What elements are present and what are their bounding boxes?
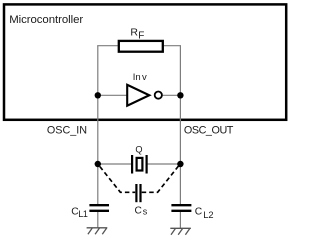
capacitor Cs right plate xyxy=(139,184,141,202)
crystal Q left plate xyxy=(131,155,133,174)
wire dashed stray left xyxy=(100,167,135,193)
op-amp/inverter Inv xyxy=(127,85,149,106)
inverter bubble xyxy=(155,92,162,99)
node crystal right junction dot xyxy=(177,161,183,167)
svg-text:Q: Q xyxy=(135,145,142,155)
capacitor CL1 bottom plate xyxy=(89,210,109,212)
capacitor CL2 top plate xyxy=(171,204,191,206)
microcontroller box U1 xyxy=(4,4,286,119)
capacitor CL1 top plate xyxy=(89,204,109,206)
wire right vertical (OSC_OUT net) xyxy=(179,46,181,204)
ground left xyxy=(87,228,108,235)
svg-text:L1: L1 xyxy=(78,209,88,219)
svg-text:OSC_IN: OSC_IN xyxy=(47,124,87,136)
wire left cap to ground xyxy=(97,212,99,228)
crystal Q right plate xyxy=(146,155,148,174)
wire crystal left lead xyxy=(98,163,132,165)
capacitor CL2 bottom plate xyxy=(171,210,191,212)
svg-text:C: C xyxy=(135,205,142,216)
capacitor Cs left plate xyxy=(135,184,137,202)
node crystal left junction dot xyxy=(95,161,101,167)
svg-text:F: F xyxy=(138,31,144,42)
crystal Q body xyxy=(137,158,143,171)
svg-text:s: s xyxy=(143,207,148,217)
resistor RF xyxy=(119,41,163,52)
wire dashed stray right xyxy=(142,165,180,192)
wire left vertical (OSC_IN net) xyxy=(97,46,99,204)
ground right xyxy=(170,228,191,235)
wire inverter output xyxy=(163,94,181,96)
wire right cap to ground xyxy=(179,212,181,228)
svg-text:R: R xyxy=(130,27,138,39)
svg-text:Microcontroller: Microcontroller xyxy=(9,14,83,26)
svg-text:L2: L2 xyxy=(203,210,213,220)
svg-text:OSC_OUT: OSC_OUT xyxy=(184,124,234,136)
wire resistor left lead xyxy=(97,45,118,47)
wire resistor right lead xyxy=(164,45,181,47)
svg-text:C: C xyxy=(195,207,203,218)
wire crystal right lead xyxy=(147,163,181,165)
svg-text:Inv: Inv xyxy=(133,72,147,83)
wire inverter input xyxy=(98,94,127,96)
node OSC_IN junction dot xyxy=(95,92,101,98)
node OSC_OUT junction dot xyxy=(177,92,183,98)
